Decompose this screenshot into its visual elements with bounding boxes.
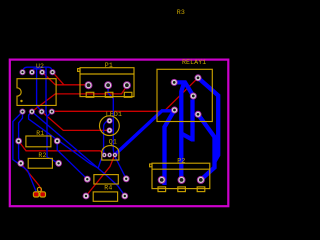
IC U2 body outline [17,79,56,106]
svg-text:P2: P2 [177,157,185,164]
wire blue thick loop bottom and right vertical up to pad C [181,100,192,140]
pads LED1 [107,118,113,134]
wire blue thick relay pad A to pad C [174,82,193,96]
wire blue thick loop left vertical down to P2 pad2 [181,83,184,180]
wire blue U2 pad1-bottom through R1 left to R2 left [19,112,23,164]
capacitor C2 body circle [37,187,41,191]
wire blue U2 pad2-bottom second branch diagonal [29,112,99,168]
relay RELAY1 outline [157,69,212,121]
svg-text:LED1: LED1 [106,111,122,118]
wire blue vertical through U2 body x46 [46,67,47,116]
svg-text:R2: R2 [38,152,46,159]
wire red horizontal to P1 pad1 [55,84,88,86]
wire red U2 pad3-bottom to LED1 bottom pad [42,112,110,131]
wire red U2 pad3-top diagonal to P1 [42,72,55,85]
resistor R2 body [28,158,52,168]
svg-text:U2: U2 [36,63,44,70]
wire blue Q1 pad3 to R4 upper right pad [114,156,126,179]
wire red U2 pad2-bottom to P1 pad3 [32,86,127,112]
pads R3 upper resistor [84,175,130,182]
wire blue U2 pad2-bottom diagonal to R4 lower right pad [32,112,125,196]
svg-text:R4: R4 [104,184,112,191]
wire blue thick relay pad D down to P2 pad1 [165,110,175,185]
pads P1 [85,81,131,89]
board outline keepout [10,60,229,207]
wire red R2 left pad to C2 right pad [21,163,43,192]
transistor Q1 outline [102,146,119,161]
resistor R3 body (upper of stacked pair) [94,175,118,184]
connector P1 outline [78,68,134,98]
svg-text:P1: P1 [105,62,113,69]
wire red R4 lower left pad to Q1 pad3 [86,156,114,197]
wire blue P1 pad2 vertical through LED1 to Q1 pad3 [108,86,114,156]
pads R1 [15,138,60,145]
pads P2 [158,176,205,184]
svg-text:R1: R1 [36,130,44,137]
wire blue U2 pad4-bottom to R2 right pad [47,112,59,164]
pads U2 [19,69,55,115]
wire blue arc bridge U2 pad2-pad3 [32,69,42,72]
resistor R1 body [26,136,51,147]
wire blue R1 right pad to R4 upper left pad [57,141,87,179]
pads R4 lower resistor [83,193,129,200]
wire red U2 pad4-top diagonal [53,72,64,85]
pads R2 [17,160,62,167]
wire red R1 left pad to Q1 pad1 [19,141,105,155]
wire blue thick relay pad E to P2 pad3 [198,114,215,180]
wire blue arc bridge U2 pad1-pad4 [23,67,53,72]
capacitor C2 right pad [40,192,46,197]
pads Q1 [102,153,118,158]
capacitor C2 left pad [33,192,39,197]
U2 pin1 dot [20,100,22,102]
wire blue LED1 top pad arc down left of Q1 [98,121,109,168]
connector P2 outline [150,163,210,191]
wire blue medium Q1 pad3 to relay pad D [114,111,173,155]
resistor R4 body [93,192,117,201]
svg-text:RELAY1: RELAY1 [182,59,206,66]
svg-text:R3: R3 [177,9,185,16]
pads RELAY1 [171,74,202,118]
wire blue U2 pad1-bottom along board edge to C2 left pad [13,112,36,192]
wire blue vertical through U2 body x36.6 [37,67,42,111]
wire blue thick relay pad B down right edge [198,78,218,162]
wire red U2 pad4-bottom to relay pad B [52,78,198,112]
svg-text:Q1: Q1 [109,139,117,146]
LED1 circle outline [100,116,120,136]
